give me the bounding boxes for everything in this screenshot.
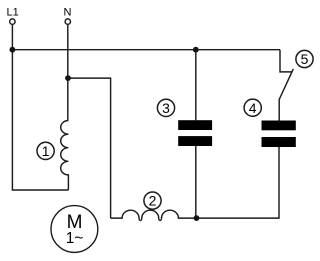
svg-text:4: 4 — [249, 100, 257, 116]
svg-text:1~: 1~ — [66, 230, 84, 247]
svg-text:5: 5 — [301, 51, 309, 67]
svg-text:3: 3 — [162, 100, 170, 116]
svg-text:1: 1 — [42, 143, 50, 159]
svg-text:L1: L1 — [7, 7, 19, 19]
svg-text:N: N — [64, 7, 72, 19]
svg-text:2: 2 — [149, 193, 157, 209]
